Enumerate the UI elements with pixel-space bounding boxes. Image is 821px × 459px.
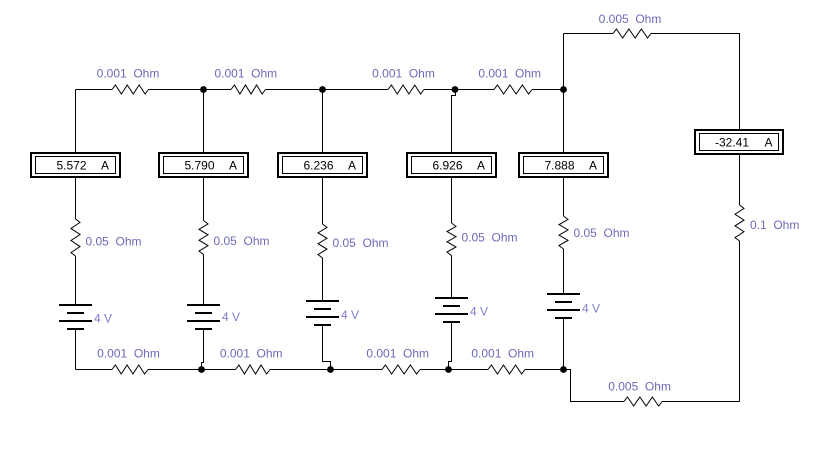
node bottom junction branch 4 (445, 366, 452, 373)
resistor 0.005 Ohm (bottom feeder) (624, 397, 662, 406)
svg-text:0.05 Ohm: 0.05 Ohm (214, 234, 270, 248)
svg-text:5.790: 5.790 (184, 159, 214, 173)
wire: branch 1 battery to bottom bus (75, 329, 77, 370)
wire: branch 2 resistor to battery (203, 255, 205, 306)
wire: branch 3 ammeter to resistor (322, 177, 324, 224)
wire: branch 5 ammeter to resistor (563, 177, 565, 216)
resistor 0.001 Ohm (top bus, between branch 1 and 2) (112, 85, 149, 94)
ammeter M3 reading 6.236 A (278, 153, 367, 177)
ammeter M6 reading -32.41 A (695, 130, 783, 154)
svg-text:0.1 Ohm: 0.1 Ohm (750, 218, 799, 232)
resistor 0.05 Ohm branch 4 (447, 223, 456, 256)
wire: top bus segment R1-R2 (149, 89, 232, 91)
svg-text:0.001 Ohm: 0.001 Ohm (97, 347, 160, 361)
svg-text:6.236: 6.236 (303, 159, 333, 173)
resistor 0.001 Ohm (bottom bus, between branch 3 and 4) (382, 365, 420, 374)
node bottom junction branch 3 (327, 366, 334, 373)
svg-text:0.001 Ohm: 0.001 Ohm (97, 67, 160, 81)
wire: bottom feeder left segment with riser to bottom bus node 5 (564, 370, 625, 402)
svg-text:4 V: 4 V (582, 302, 600, 316)
svg-text:A: A (477, 159, 485, 173)
wire: branch 3 battery to bottom bus (323, 325, 331, 370)
svg-text:0.001 Ohm: 0.001 Ohm (372, 67, 435, 81)
svg-text:5.572: 5.572 (56, 159, 86, 173)
ammeter M1 reading 5.572 A (31, 153, 120, 177)
svg-text:0.001 Ohm: 0.001 Ohm (214, 67, 277, 81)
svg-text:4 V: 4 V (470, 304, 488, 318)
wire: top bus segment R2-R3 (266, 89, 389, 91)
resistor 0.05 Ohm branch 2 (199, 221, 208, 255)
svg-text:6.926: 6.926 (432, 159, 462, 173)
resistor 0.001 Ohm (top bus, between branch 2 and 3) (231, 85, 266, 94)
wire: top feeder left segment (564, 33, 614, 35)
wire: branch 4 battery to bottom bus (449, 322, 452, 370)
ammeter M2 reading 5.790 A (159, 153, 248, 177)
wire: branch 4 ammeter to resistor (451, 177, 453, 223)
svg-text:7.888: 7.888 (544, 159, 574, 173)
wire: branch 3 top vertical (322, 90, 324, 154)
wire: top bus segment R3-R4 (424, 89, 494, 91)
wire: branch 2 battery to bottom bus (202, 329, 204, 370)
wire: top bus segment R4-node5 (532, 89, 564, 91)
battery B3 4 V (306, 301, 339, 325)
wire: top feeder right segment and corner down to ammeter (651, 34, 740, 131)
node top junction branch 4 (452, 86, 459, 93)
svg-text:0.001 Ohm: 0.001 Ohm (478, 67, 541, 81)
node top junction branch 3 (319, 86, 326, 93)
node top junction branch 5 (560, 86, 567, 93)
svg-text:A: A (348, 159, 356, 173)
wire: load resistor down right side (739, 241, 741, 402)
ammeter M5 reading 7.888 A (519, 153, 608, 177)
resistor 0.005 Ohm (top feeder) (613, 29, 651, 38)
wire: bottom bus segment R8-node (525, 369, 564, 371)
node top junction branch 2 (200, 86, 207, 93)
resistor 0.05 Ohm branch 5 (559, 216, 568, 249)
wire: branch 1 resistor to battery (75, 256, 77, 305)
svg-text:A: A (101, 159, 109, 173)
resistor 0.001 Ohm (top bus, between branch 3 and 4) (388, 85, 424, 94)
wire: branch 3 resistor to battery (322, 258, 324, 301)
svg-text:4 V: 4 V (222, 310, 240, 324)
wire: branch 1 top vertical (75, 90, 77, 154)
svg-text:0.05 Ohm: 0.05 Ohm (574, 226, 630, 240)
wire: bottom bus segment R5-R6 (148, 369, 236, 371)
battery B1 4 V (59, 305, 92, 329)
battery B4 4 V (435, 298, 468, 322)
wire: branch 1 ammeter to resistor (75, 177, 77, 219)
resistor 0.1 Ohm (load) (735, 205, 744, 241)
node bottom junction branch 2 (198, 366, 205, 373)
wire: branch 5 top vertical (563, 90, 565, 154)
svg-text:A: A (764, 136, 772, 150)
svg-text:A: A (589, 159, 597, 173)
resistor 0.05 Ohm branch 3 (318, 224, 327, 258)
ammeter M4 reading 6.926 A (407, 153, 496, 177)
resistor 0.001 Ohm (bottom bus, between branch 4 and 5) (488, 365, 525, 374)
wire: bottom bus segment R7-R8 (420, 369, 488, 371)
svg-text:0.001 Ohm: 0.001 Ohm (366, 347, 429, 361)
resistor 0.001 Ohm (bottom bus, between branch 1 and 2) (112, 365, 148, 374)
resistor 0.001 Ohm (top bus, between branch 4 and 5) (494, 85, 532, 94)
svg-text:0.005 Ohm: 0.005 Ohm (599, 12, 662, 26)
battery B5 4 V (547, 294, 580, 318)
svg-text:4 V: 4 V (341, 308, 359, 322)
wire: load ammeter to load resistor (739, 154, 741, 205)
battery B2 4 V (187, 305, 220, 329)
wire: top bus segment node1-R1 (76, 89, 113, 91)
node bottom junction branch 5 (560, 366, 567, 373)
wire: branch 2 top vertical (203, 90, 205, 154)
resistor 0.001 Ohm (bottom bus, between branch 2 and 3) (236, 365, 271, 374)
wire: bottom bus segment R6-R7 (270, 369, 382, 371)
wire: branch 4 resistor to battery (451, 256, 453, 299)
svg-text:0.005 Ohm: 0.005 Ohm (608, 380, 671, 394)
wire: branch 4 top vertical with jog (452, 90, 456, 154)
svg-text:0.05 Ohm: 0.05 Ohm (333, 236, 389, 250)
wire: bottom bus segment corner-R5 (76, 369, 113, 371)
wire: branch 5 battery to bottom bus (563, 318, 565, 370)
wire: branch 2 ammeter to resistor (203, 177, 205, 221)
svg-text:0.05 Ohm: 0.05 Ohm (462, 231, 518, 245)
wire: feeder top vertical from node 5 (563, 34, 565, 90)
svg-text:0.05 Ohm: 0.05 Ohm (86, 234, 142, 248)
wire: branch 5 resistor to battery (563, 249, 565, 294)
svg-text:-32.41: -32.41 (715, 136, 749, 150)
svg-text:4 V: 4 V (94, 312, 112, 326)
resistor 0.05 Ohm branch 1 (71, 219, 80, 256)
wire: bottom feeder right segment (662, 401, 740, 403)
svg-text:0.001 Ohm: 0.001 Ohm (220, 347, 283, 361)
svg-text:A: A (229, 159, 237, 173)
svg-text:0.001 Ohm: 0.001 Ohm (471, 347, 534, 361)
